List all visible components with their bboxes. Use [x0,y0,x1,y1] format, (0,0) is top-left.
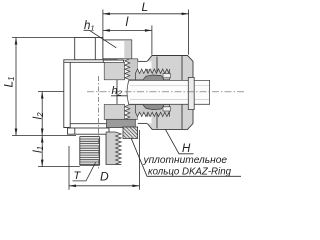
label h1 with leader [84,20,117,48]
dimension L1 [2,38,77,136]
svg-text:D: D [100,170,109,184]
nut hex edge right [181,56,183,129]
shoulder thread profile lower (vertical zigzag) [125,105,138,120]
label T with leader [73,163,96,183]
dimension l [103,15,152,55]
stud flange plate [68,128,110,134]
thread mesh upper band [135,69,169,80]
thread mesh lower band [135,105,169,117]
body bottom dark step band [107,119,136,127]
body top face second line [64,61,104,63]
stud thread external view bars [80,137,100,166]
body boss A (top left block) [75,38,103,60]
body top ledge slab [103,60,123,62]
cutting ring upper [143,75,164,80]
dimension D [69,130,139,190]
union nut [147,56,193,130]
nut thread gap white lower [138,117,152,124]
body section grey above tube [104,62,124,79]
svg-text:уплотнительное: уплотнительное [143,154,228,166]
nut thread gap white upper [138,61,152,69]
body main block [64,60,117,128]
tube [127,80,210,104]
cutting ring lower [143,104,164,109]
nut back collar [188,77,194,109]
body section grey below tube [104,104,124,119]
ring back collar lower [163,107,171,111]
boss A inner edge line [94,38,96,60]
label h2 with leader [111,85,127,98]
label H with leader [166,130,194,155]
svg-text:кольцо DKAZ-Ring: кольцо DKAZ-Ring [148,165,231,177]
boss B grey section fill [124,40,131,58]
body boss B (top collar, sectioned) [103,40,132,59]
stud section wall with thread profile [106,132,121,165]
tube inner wall top [130,84,209,86]
tube inner wall bottom [130,98,209,100]
svg-text:L: L [142,0,149,14]
flange step line [74,128,76,134]
ring back collar upper [163,74,171,78]
body inner hex line [69,62,71,123]
stud section bore line [105,134,107,164]
leader note sealing ring [131,138,241,178]
dimension l2 [30,92,64,136]
dimension l1 [30,136,80,167]
nut hex edge left [156,57,158,129]
shoulder thread profile upper (vertical zigzag) [125,59,138,80]
dimension L [103,0,189,55]
seal ring DKAZ (hatched) [123,127,138,138]
horizontal centerline [87,91,245,93]
vertical centerline [98,76,100,171]
